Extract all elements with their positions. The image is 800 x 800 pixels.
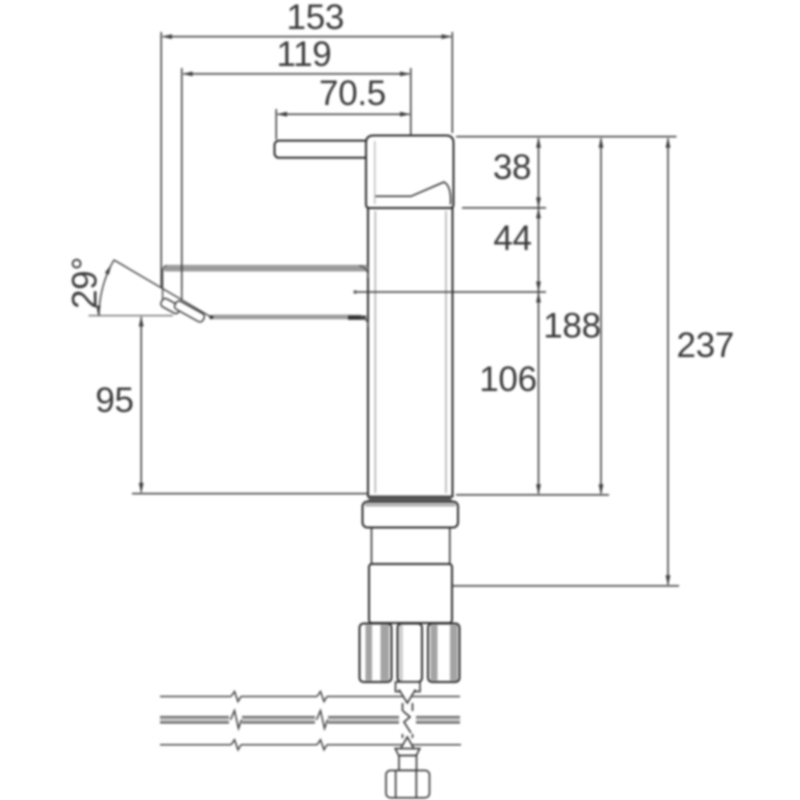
- svg-text:153: 153: [287, 0, 345, 37]
- svg-text:38: 38: [493, 148, 531, 187]
- svg-text:188: 188: [543, 307, 601, 346]
- svg-text:29°: 29°: [66, 257, 105, 309]
- svg-text:44: 44: [493, 219, 531, 258]
- svg-text:95: 95: [95, 381, 133, 420]
- svg-text:70.5: 70.5: [319, 74, 386, 113]
- svg-text:119: 119: [277, 35, 332, 74]
- svg-text:106: 106: [479, 360, 537, 399]
- svg-text:237: 237: [677, 326, 735, 365]
